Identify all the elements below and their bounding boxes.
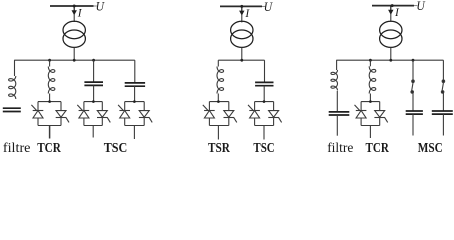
- transformer secondary lead: [241, 47, 243, 60]
- transformer secondary lead: [390, 47, 392, 60]
- svg-text:filtre: filtre: [327, 141, 353, 156]
- circuit1 HV busbar: [50, 5, 94, 7]
- TCR1 drop wire: [49, 60, 51, 66]
- TSR2 corner drop: [217, 60, 219, 66]
- TCR3 valve frame: [361, 102, 380, 126]
- TSC1b link wire: [134, 86, 136, 101]
- svg-text:TSR: TSR: [208, 141, 231, 156]
- circuit1 LV distribution bus: [14, 59, 135, 61]
- inductor filtre1: [9, 76, 16, 99]
- MSC3b link wire: [442, 92, 444, 111]
- circuit2 HV busbar: [220, 5, 262, 7]
- svg-text:U: U: [416, 0, 426, 13]
- MSC3a junction: [412, 59, 415, 62]
- TCR3 junction: [369, 59, 372, 62]
- TSR2 thyristor reverse: [224, 102, 237, 126]
- TSR2 exit wire: [217, 126, 219, 140]
- TCR1 thyristor reverse: [56, 102, 69, 126]
- TSR2 feed junction: [217, 100, 220, 103]
- TSC2 exit wire: [263, 126, 265, 140]
- capacitor TSC1b: [125, 83, 145, 86]
- svg-text:I: I: [394, 7, 400, 19]
- filtre1 drop wire: [14, 60, 16, 76]
- TSC1a drop wire: [93, 60, 95, 82]
- filtre3 tail wire: [336, 115, 338, 136]
- MSC3a link wire: [412, 92, 414, 111]
- TSC1a junction: [92, 59, 95, 62]
- circuit3 bus tail: [414, 5, 417, 7]
- TCR1 thyristor forward: [31, 102, 43, 126]
- svg-text:I: I: [244, 8, 250, 20]
- TSR2 valve frame: [209, 102, 228, 126]
- capacitor TSC1a: [84, 82, 103, 85]
- TCR3 drop wire: [369, 60, 371, 66]
- TSC2 valve frame: [255, 102, 274, 126]
- TSC1b valve frame: [125, 102, 145, 126]
- TCR3 link wire: [369, 94, 371, 102]
- TSC1b exit wire: [133, 126, 135, 140]
- MSC3a drop wire: [412, 60, 414, 80]
- MSC3b tail wire: [442, 114, 444, 135]
- TSR2 thyristor forward: [203, 102, 215, 126]
- transformer primary winding: [231, 21, 253, 38]
- TSC2 thyristor reverse: [268, 102, 281, 126]
- inductor TCR3: [369, 66, 376, 93]
- TSC1a exit wire: [92, 126, 94, 138]
- TCR3 thyristor forward: [355, 102, 367, 126]
- circuit3 LV distribution bus: [336, 59, 443, 61]
- TCR3 feed junction: [369, 100, 372, 103]
- svg-text:I: I: [77, 8, 83, 20]
- current arrow I: [240, 6, 243, 22]
- capacitor filtre3: [329, 112, 350, 115]
- TCR3 thyristor reverse: [374, 102, 387, 126]
- TCR1 feed junction: [48, 100, 51, 103]
- TSC1a thyristor reverse: [97, 102, 110, 126]
- svg-text:TSC: TSC: [253, 141, 274, 156]
- transformer secondary winding: [63, 30, 85, 47]
- filtre3 corner drop: [336, 60, 338, 70]
- circuit3 transformer junction: [389, 59, 392, 62]
- TSC2 feed junction: [263, 100, 266, 103]
- TCR1 exit wire: [49, 126, 51, 139]
- TCR1 link wire: [49, 94, 51, 102]
- svg-text:TCR: TCR: [366, 141, 390, 156]
- TSC1b corner drop: [134, 60, 136, 83]
- circuit2 transformer junction: [240, 59, 243, 62]
- circuit1 bus tail: [94, 5, 97, 7]
- current arrow I: [73, 6, 76, 22]
- inductor TSR2: [217, 67, 224, 94]
- transformer secondary lead: [73, 47, 75, 60]
- transformer secondary winding: [231, 30, 253, 47]
- capacitor TSC2: [255, 82, 273, 85]
- switch MSC3b: [441, 80, 444, 93]
- circuit2 LV distribution bus: [218, 59, 264, 61]
- TSC1a feed junction: [92, 100, 95, 103]
- TSC1b feed junction: [133, 100, 136, 103]
- TSC1a thyristor forward: [77, 102, 89, 126]
- capacitor filtre1: [3, 108, 21, 111]
- switch MSC3a: [411, 80, 414, 93]
- capacitor MSC3b: [432, 111, 453, 114]
- circuit3 bus junction: [391, 4, 394, 7]
- TCR1 junction: [48, 59, 51, 62]
- svg-text:TCR: TCR: [37, 141, 61, 156]
- svg-text:TSC: TSC: [104, 141, 128, 156]
- MSC3b corner drop: [442, 60, 444, 80]
- transformer primary winding: [380, 21, 402, 38]
- circuit2 bus junction: [240, 5, 243, 8]
- MSC3a tail wire: [412, 114, 414, 135]
- current arrow I: [389, 6, 392, 22]
- TSC1b thyristor reverse: [139, 102, 152, 126]
- inductor TCR1: [48, 67, 55, 94]
- circuit3 HV busbar: [372, 5, 414, 7]
- circuit1 transformer junction: [73, 59, 76, 62]
- TCR1 valve frame: [38, 102, 61, 126]
- TSC1a valve frame: [84, 102, 102, 126]
- TSR2 link wire: [217, 94, 219, 102]
- transformer primary winding: [63, 21, 85, 38]
- circuit1 bus junction: [73, 5, 76, 8]
- TSC2 link wire: [263, 86, 265, 102]
- TSC1a link wire: [93, 85, 95, 101]
- filtre3 link wire: [336, 91, 338, 112]
- svg-text:U: U: [96, 0, 106, 13]
- TSC2 corner drop: [264, 60, 266, 82]
- svg-text:MSC: MSC: [418, 141, 443, 156]
- svg-text:filtre: filtre: [3, 141, 31, 156]
- TSC1b thyristor forward: [118, 102, 130, 126]
- TSC2 thyristor forward: [248, 102, 260, 126]
- svg-text:U: U: [264, 0, 274, 14]
- transformer secondary winding: [380, 30, 402, 47]
- circuit2 bus tail: [262, 5, 265, 7]
- capacitor MSC3a: [406, 111, 423, 114]
- TCR3 exit wire: [369, 126, 371, 139]
- inductor filtre3: [331, 70, 338, 91]
